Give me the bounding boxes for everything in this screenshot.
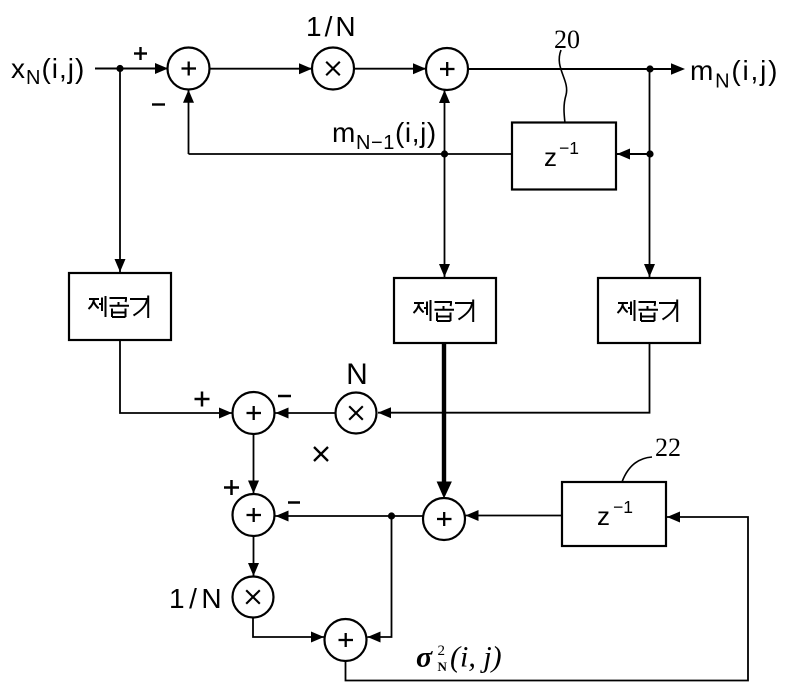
wire M2 to adder A3	[276, 408, 336, 419]
squarer SQ3	[598, 278, 700, 343]
svg-text:1/N: 1/N	[306, 11, 359, 42]
wire SQ3 to multiplier M2	[378, 343, 650, 418]
plus sign at A1 input	[134, 47, 147, 60]
wire A5 output to A4	[276, 511, 424, 522]
minus sign at A1 feedback input	[152, 103, 165, 105]
leader squiggle for 22	[622, 457, 652, 482]
wire M3 to adder A6	[253, 618, 324, 643]
adder A1	[168, 48, 210, 90]
svg-text:N: N	[438, 659, 448, 674]
wire M1 to adder A2	[354, 63, 426, 74]
adder A2	[426, 48, 468, 90]
plus sign at A3 input	[195, 392, 210, 407]
wire A1 to multiplier M1	[210, 63, 313, 74]
adder A4	[233, 494, 275, 536]
wire J3 to Z1 input	[617, 149, 650, 160]
label sigma^2_N(i,j)	[416, 641, 502, 675]
svg-text:1/N: 1/N	[169, 583, 226, 614]
wire Z1 output feedback to A1	[183, 90, 512, 154]
node J1 input branch dot	[116, 65, 123, 72]
stray multiply sign	[314, 447, 328, 461]
thick wire SQ2 to adder A5	[437, 344, 452, 499]
wire J2 down to squarer SQ3	[644, 69, 655, 277]
wire J5 down to adder A6	[368, 516, 392, 643]
svg-text:xN(i,j): xN(i,j)	[11, 53, 85, 89]
svg-text:(i, j): (i, j)	[450, 641, 502, 674]
wire A4 down to multiplier M3	[248, 536, 259, 576]
minus sign at A3 input	[278, 395, 291, 398]
svg-text:20: 20	[554, 25, 580, 54]
node J4 feedback branch dot	[441, 150, 448, 157]
leader squiggle for 20	[559, 50, 566, 123]
node J3 dot at Z1 input	[646, 150, 653, 157]
node J2 output branch dot	[646, 65, 653, 72]
svg-text:z: z	[544, 142, 557, 172]
minus sign at A4 input	[288, 501, 300, 504]
svg-text:mN−1(i,j): mN−1(i,j)	[332, 117, 437, 154]
squarer SQ1	[69, 273, 171, 340]
wire J4 down to squarer SQ2	[439, 154, 450, 277]
wire A3 down to adder A4	[248, 434, 259, 494]
adder A6	[325, 619, 367, 661]
svg-text:22: 22	[655, 433, 681, 462]
wire J4 up to adder A2	[439, 90, 450, 154]
plus sign at A4 input	[224, 480, 239, 495]
delay block Z1 (20)	[512, 123, 616, 190]
wire input to adder A1	[95, 63, 168, 74]
multiplier M2	[336, 393, 377, 434]
svg-text:−1: −1	[613, 497, 633, 517]
wire A6 loop to Z2 input	[346, 512, 749, 681]
multiplier M3	[233, 577, 274, 618]
adder A3	[233, 392, 275, 434]
squarer SQ2	[394, 278, 496, 343]
adder A5	[423, 498, 465, 540]
svg-text:σ: σ	[416, 641, 433, 674]
svg-text:N: N	[346, 358, 368, 391]
wire Z2 output to A5	[466, 510, 563, 521]
multiplier M1	[312, 48, 354, 90]
delay block Z2 (22)	[562, 482, 666, 546]
wire A2 to output m_N	[468, 63, 685, 74]
svg-text:mN(i,j): mN(i,j)	[690, 55, 779, 93]
svg-text:2: 2	[438, 643, 446, 659]
node J5 variance branch dot	[388, 512, 395, 519]
wire SQ1 to adder A3	[120, 340, 232, 419]
wire J1 down to squarer SQ1	[115, 69, 126, 273]
svg-text:−1: −1	[559, 138, 579, 158]
svg-text:z: z	[597, 501, 610, 531]
